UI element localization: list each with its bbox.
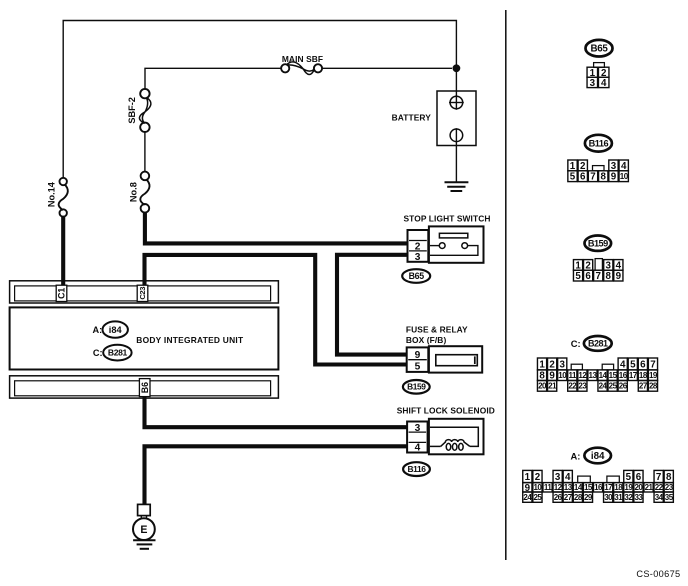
svg-text:31: 31	[614, 493, 623, 502]
svg-text:B65: B65	[409, 271, 425, 281]
wire No.8 to stop light switch pin 2 (thick)	[145, 213, 408, 244]
body integrated unit main box	[10, 307, 279, 369]
fuse & relay box body	[429, 346, 482, 372]
svg-text:23: 23	[578, 382, 587, 391]
svg-text:1: 1	[525, 472, 531, 483]
svg-text:2: 2	[535, 472, 541, 483]
svg-text:FUSE & RELAY: FUSE & RELAY	[406, 325, 468, 335]
connector B65 oval	[586, 40, 613, 57]
svg-text:11: 11	[544, 483, 553, 492]
body integrated unit top connector strip	[10, 281, 279, 303]
svg-text:2: 2	[415, 241, 421, 252]
shift lock solenoid body	[429, 419, 484, 455]
svg-text:5: 5	[630, 359, 636, 370]
shift lock solenoid connector pins 3,4	[407, 422, 428, 453]
svg-text:22: 22	[655, 483, 664, 492]
svg-text:5: 5	[415, 362, 421, 373]
svg-text:C23: C23	[138, 287, 147, 300]
fuse No.8	[141, 172, 150, 181]
svg-text:B281: B281	[108, 348, 128, 358]
stop light switch connector pins 2,3	[408, 230, 429, 262]
connector B159 pin grid	[573, 260, 582, 271]
svg-text:STOP LIGHT SWITCH: STOP LIGHT SWITCH	[403, 213, 490, 223]
svg-text:27: 27	[564, 493, 573, 502]
svg-text:6: 6	[636, 472, 642, 483]
svg-text:3: 3	[590, 78, 596, 89]
svg-text:30: 30	[604, 493, 613, 502]
connector C1 (pin box + label)	[56, 285, 67, 301]
connector B116 oval	[585, 135, 612, 152]
svg-text:18: 18	[614, 483, 623, 492]
svg-text:11: 11	[569, 371, 578, 380]
svg-text:5: 5	[570, 172, 576, 183]
svg-text:9: 9	[415, 350, 421, 361]
svg-text:16: 16	[594, 483, 603, 492]
wire fuse & relay box pin 5 to C23 (thick)	[145, 255, 408, 365]
svg-text:13: 13	[589, 371, 598, 380]
svg-text:4: 4	[620, 359, 626, 370]
svg-text:BATTERY: BATTERY	[392, 113, 432, 123]
connector B65 pin grid	[594, 63, 605, 68]
svg-text:SBF-2: SBF-2	[127, 97, 137, 124]
svg-text:19: 19	[649, 371, 658, 380]
svg-text:C:: C:	[93, 348, 103, 358]
wire stop light switch pin 3 to fuse & relay box pin 9 (thick)	[337, 255, 408, 355]
svg-text:3: 3	[555, 472, 561, 483]
svg-text:22: 22	[568, 382, 577, 391]
wire junction to battery +	[455, 68, 457, 96]
svg-text:34: 34	[655, 493, 664, 502]
svg-text:24: 24	[523, 493, 532, 502]
svg-text:7: 7	[590, 172, 596, 183]
svg-text:C1: C1	[57, 288, 67, 299]
svg-text:33: 33	[634, 493, 643, 502]
svg-text:12: 12	[554, 483, 563, 492]
svg-text:17: 17	[629, 371, 638, 380]
svg-text:19: 19	[624, 483, 633, 492]
battery box	[437, 91, 476, 146]
svg-text:8: 8	[601, 172, 607, 183]
wire battery - to ground	[455, 146, 457, 183]
connector label B116 oval (schematic)	[403, 462, 430, 476]
ground E symbol	[138, 504, 151, 515]
wire SBF-2 to No.8	[144, 132, 146, 172]
svg-text:3: 3	[415, 252, 421, 263]
svg-text:21: 21	[645, 483, 654, 492]
svg-text:B159: B159	[588, 238, 608, 248]
svg-text:35: 35	[665, 493, 674, 502]
svg-text:A:: A:	[570, 450, 580, 461]
svg-text:4: 4	[565, 472, 571, 483]
svg-text:18: 18	[639, 371, 648, 380]
svg-text:8: 8	[606, 271, 612, 282]
svg-text:21: 21	[548, 382, 557, 391]
svg-text:29: 29	[584, 493, 593, 502]
connector label B159 oval (schematic)	[403, 380, 430, 394]
svg-text:5: 5	[626, 472, 632, 483]
wire shift lock solenoid pin 4 to ground E (thick)	[145, 446, 408, 504]
separator line	[505, 10, 507, 560]
svg-text:17: 17	[604, 483, 613, 492]
connector label B65 oval (schematic)	[402, 269, 430, 283]
svg-text:BODY INTEGRATED UNIT: BODY INTEGRATED UNIT	[136, 335, 244, 345]
stop light switch body	[429, 226, 484, 262]
svg-text:7: 7	[656, 472, 662, 483]
svg-text:A:: A:	[92, 325, 102, 335]
svg-text:20: 20	[538, 382, 547, 391]
body integrated unit bottom connector strip	[10, 376, 279, 398]
svg-text:No.14: No.14	[47, 181, 57, 207]
svg-text:27: 27	[639, 382, 648, 391]
svg-text:20: 20	[634, 483, 643, 492]
fuse SBF-2	[140, 89, 149, 98]
svg-text:9: 9	[616, 271, 622, 282]
svg-text:28: 28	[649, 382, 658, 391]
svg-text:2: 2	[549, 359, 555, 370]
svg-text:B65: B65	[590, 44, 608, 55]
svg-text:B281: B281	[588, 339, 608, 349]
svg-text:26: 26	[554, 493, 563, 502]
svg-text:15: 15	[609, 371, 618, 380]
svg-text:7: 7	[595, 271, 601, 282]
svg-text:MAIN SBF: MAIN SBF	[282, 54, 323, 64]
svg-text:28: 28	[574, 493, 583, 502]
svg-text:24: 24	[599, 382, 608, 391]
svg-text:6: 6	[640, 359, 646, 370]
svg-text:25: 25	[609, 382, 618, 391]
svg-text:6: 6	[580, 172, 586, 183]
svg-text:1: 1	[539, 359, 545, 370]
svg-text:6: 6	[585, 271, 591, 282]
connector B6 (pin box + label)	[139, 379, 150, 397]
svg-text:14: 14	[599, 371, 608, 380]
svg-text:SHIFT LOCK SOLENOID: SHIFT LOCK SOLENOID	[397, 406, 495, 416]
connector C: B281 pin grid	[537, 358, 546, 370]
connector C23 (pin box + label)	[137, 285, 148, 301]
svg-text:15: 15	[584, 483, 593, 492]
svg-text:No.8: No.8	[129, 182, 139, 202]
wire No.14 to C1 (thick)	[61, 216, 65, 286]
fuse & relay box connector pins 9,5	[407, 347, 429, 372]
svg-text:CS-00675: CS-00675	[636, 569, 680, 579]
svg-text:10: 10	[558, 371, 567, 380]
svg-text:8: 8	[666, 472, 672, 483]
svg-text:10: 10	[620, 172, 629, 181]
svg-text:4: 4	[415, 443, 421, 454]
svg-text:16: 16	[619, 371, 628, 380]
svg-text:3: 3	[415, 423, 421, 434]
svg-text:B116: B116	[589, 138, 609, 148]
svg-text:7: 7	[650, 359, 656, 370]
svg-text:C:: C:	[571, 338, 581, 349]
svg-text:32: 32	[624, 493, 633, 502]
svg-text:14: 14	[574, 483, 583, 492]
svg-text:BOX (F/B): BOX (F/B)	[406, 335, 447, 345]
connector B116 pin grid	[568, 160, 577, 171]
svg-text:4: 4	[601, 78, 607, 89]
svg-text:B116: B116	[408, 464, 427, 474]
svg-text:10: 10	[533, 483, 542, 492]
svg-text:B6: B6	[140, 382, 150, 393]
svg-text:26: 26	[619, 382, 628, 391]
svg-text:25: 25	[533, 493, 542, 502]
svg-text:i84: i84	[109, 325, 123, 335]
battery - terminal	[450, 129, 463, 142]
svg-text:9: 9	[611, 172, 617, 183]
svg-text:3: 3	[559, 359, 565, 370]
svg-text:B159: B159	[407, 382, 426, 392]
connector B159 oval	[585, 236, 612, 251]
connector A: I84 pin grid	[523, 470, 532, 482]
wire from battery junction to top-left (No.14 branch)	[63, 21, 456, 179]
svg-text:23: 23	[665, 483, 674, 492]
wire B6 to shift lock solenoid pin 3 (thick)	[145, 396, 408, 427]
ground (battery)	[445, 181, 469, 183]
node junction at battery feed	[453, 65, 460, 72]
wire MAIN SBF feed from junction to SBF-2 branch corner	[145, 68, 452, 89]
battery + terminal	[450, 96, 463, 109]
fuse No.14	[60, 178, 67, 185]
svg-text:12: 12	[578, 371, 587, 380]
svg-text:i84: i84	[591, 451, 605, 462]
svg-text:5: 5	[575, 271, 581, 282]
svg-text:13: 13	[564, 483, 573, 492]
svg-text:E: E	[140, 524, 147, 536]
fuse MAIN SBF	[281, 64, 289, 72]
